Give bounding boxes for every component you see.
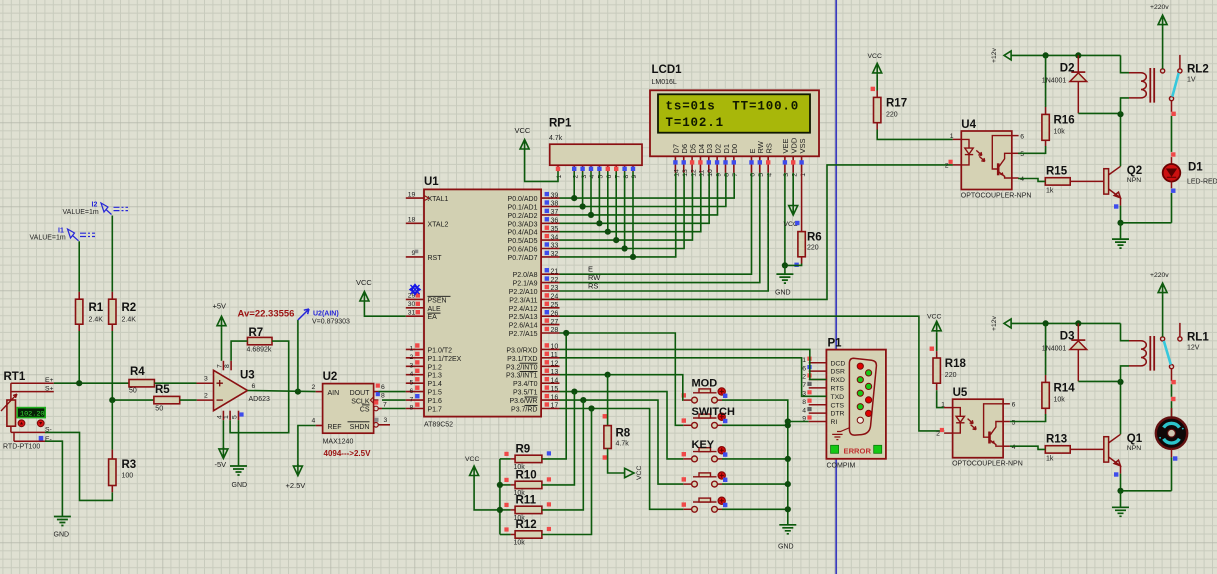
U3 pin 1 stub <box>229 411 231 421</box>
U1 pin 6 stub <box>406 391 424 393</box>
motor (fan) <box>1156 418 1187 449</box>
svg-text:6: 6 <box>252 383 256 390</box>
P1 pin 7 stub <box>809 387 827 389</box>
junction button common <box>785 506 791 512</box>
state square (D1 bottom) <box>1171 189 1175 193</box>
relay RL1 NC stub <box>1179 323 1181 337</box>
U1 pin 8 stub <box>406 408 424 410</box>
wire ground to motor <box>1121 490 1172 492</box>
svg-text:8: 8 <box>224 364 231 368</box>
KEY right stub <box>717 458 722 460</box>
svg-text:VALUE=1m: VALUE=1m <box>30 234 66 241</box>
wire R9-R12 common <box>499 459 501 535</box>
pin stub D1 bottom <box>1171 182 1173 189</box>
state square RT1 E- <box>39 436 44 441</box>
pin stub R1 bottom <box>78 324 80 331</box>
svg-text:SCLK: SCLK <box>351 398 370 405</box>
junction R11 vcc <box>497 507 503 513</box>
svg-text:R4: R4 <box>130 366 145 378</box>
svg-text:14: 14 <box>551 377 559 384</box>
wire P0.4 to LCD D4 <box>560 173 701 232</box>
wire R8 top <box>607 375 609 426</box>
pin stub R3 bottom <box>111 486 113 493</box>
U4 pin4 stub <box>1012 177 1019 179</box>
svg-text:8: 8 <box>802 399 806 406</box>
wire VCC to R18 <box>936 333 938 351</box>
svg-text:10: 10 <box>551 344 559 351</box>
ground (Q1) <box>1112 507 1129 516</box>
svg-text:R10: R10 <box>516 469 537 481</box>
wire button right <box>722 458 788 460</box>
svg-text:P2.1/A9: P2.1/A9 <box>513 281 538 288</box>
svg-text:2: 2 <box>802 374 806 381</box>
wire S node to R3 <box>111 400 113 450</box>
wire P3.7 to KEY3 <box>560 409 684 510</box>
wire probe pin <box>297 320 299 392</box>
push button KEY3 <box>692 498 718 512</box>
relay RL1 lever <box>1164 341 1171 365</box>
svg-text:35: 35 <box>551 226 559 233</box>
wire U3 pin8 to R7 <box>231 341 247 361</box>
push button SWITCH <box>692 414 718 428</box>
RT1 pin E+ <box>11 382 54 384</box>
wire rail to RL1 coil <box>1121 323 1130 340</box>
U1 pin 10 stub <box>541 348 559 350</box>
svg-text:U5: U5 <box>953 387 968 399</box>
svg-text:P2.4/A12: P2.4/A12 <box>509 306 538 313</box>
svg-text:2: 2 <box>204 393 208 400</box>
svg-text:1: 1 <box>223 415 230 419</box>
wire R1 bottom to E+ node <box>78 331 80 383</box>
P1 pin 6 stub <box>809 370 827 372</box>
pin stub R18 top <box>936 351 938 358</box>
svg-text:P3.2/INT0: P3.2/INT0 <box>506 364 538 371</box>
svg-text:+12v: +12v <box>991 315 998 331</box>
svg-text:P3.6/WR: P3.6/WR <box>509 398 537 405</box>
svg-text:CTS: CTS <box>831 402 845 409</box>
svg-text:5: 5 <box>1012 419 1016 426</box>
LCD pin E stub <box>751 156 753 173</box>
wire R13 to Q1 base <box>1070 448 1104 450</box>
junction R16 / rail <box>1043 52 1049 58</box>
U1 pin 30 stub <box>406 307 424 309</box>
svg-text:37: 37 <box>551 209 559 216</box>
SWITCH left stub <box>683 424 691 426</box>
wire rail to R16 <box>1045 55 1047 107</box>
pin stub R2 top <box>111 292 113 299</box>
svg-text:VALUE=1m: VALUE=1m <box>63 209 99 216</box>
wire rail to R14 <box>1045 323 1047 375</box>
node ground (Q2) <box>1117 220 1123 226</box>
svg-text:P0.5/AD5: P0.5/AD5 <box>508 238 538 245</box>
P1 connector pin circle <box>857 377 863 383</box>
svg-text:P1: P1 <box>828 338 843 350</box>
svg-text:P0.7/AD7: P0.7/AD7 <box>508 255 538 262</box>
RT1 pin S- <box>11 431 45 433</box>
voltage probe U2(AIN) <box>298 309 309 320</box>
svg-text:U4: U4 <box>961 119 976 131</box>
wire P2.3 to U4 pin2 <box>560 165 953 300</box>
state square Q2 emitter <box>1114 204 1118 208</box>
svg-text:VCC: VCC <box>636 466 643 480</box>
wire buttons common to ground <box>722 400 788 524</box>
U5 pin6 stub <box>1003 403 1010 405</box>
svg-text:P1.6: P1.6 <box>428 398 443 405</box>
svg-text:7: 7 <box>410 396 414 403</box>
state square (motor bottom) <box>1173 456 1177 460</box>
wire to motor <box>1171 384 1173 397</box>
P1 connector pin circle <box>866 410 872 416</box>
relay RL2 lever <box>1172 73 1178 97</box>
power VCC arrow EA <box>360 292 369 304</box>
pin stub opamp - <box>197 399 214 401</box>
D3 anode lead <box>1077 350 1079 382</box>
microcontroller U1 AT89C52 <box>424 189 541 416</box>
wire D2 anode to node <box>1078 112 1120 114</box>
resistor R5 50 <box>154 396 180 403</box>
svg-text:28: 28 <box>551 327 559 334</box>
resistor R12 10k <box>515 531 542 538</box>
U3 pin 4 stub <box>222 411 224 421</box>
svg-text:100: 100 <box>122 473 134 480</box>
U1 pin 14 stub <box>541 382 559 384</box>
svg-text:11: 11 <box>699 170 706 177</box>
svg-text:6: 6 <box>802 365 806 372</box>
U5 pin5 stub <box>1003 421 1010 423</box>
U1 pin 17 stub <box>541 408 559 410</box>
wire I2 to R2 <box>111 216 113 292</box>
resistor R11 10k <box>515 506 542 513</box>
svg-text:PSEN: PSEN <box>428 297 447 304</box>
Q2 emitter stub <box>1120 198 1122 206</box>
power +5V arrow <box>217 316 226 328</box>
KEY3 left stub <box>683 508 691 510</box>
svg-text:3: 3 <box>410 363 414 370</box>
svg-text:2: 2 <box>312 384 316 391</box>
svg-text:1: 1 <box>802 357 806 364</box>
svg-text:XTAL2: XTAL2 <box>428 221 449 228</box>
U2 pin REF stub <box>316 425 323 427</box>
svg-text:COMPIM: COMPIM <box>827 463 856 470</box>
power +2.5V arrow <box>293 464 302 476</box>
resistor R3 100 <box>109 459 116 486</box>
svg-text:+2.5V: +2.5V <box>286 481 306 490</box>
RP1 pin 4 stub <box>590 165 592 171</box>
svg-text:LED-RED: LED-RED <box>1187 179 1217 186</box>
wire RL2 to D1 a <box>1171 101 1173 112</box>
svg-text:7: 7 <box>732 173 739 177</box>
svg-text:4: 4 <box>1012 444 1016 451</box>
wire +220v to RL1 contact <box>1162 295 1164 337</box>
U1 pin 16 stub <box>541 399 559 401</box>
wire P0.0 to LCD D0 <box>560 173 735 198</box>
transistor Q2 NPN <box>1104 169 1109 194</box>
svg-text:NPN: NPN <box>1127 177 1141 184</box>
current probe I1 <box>68 229 96 241</box>
wire R15 to Q2 base <box>1070 180 1104 182</box>
U2 pin DOUT stub <box>374 391 379 393</box>
svg-text:5: 5 <box>1020 151 1024 158</box>
svg-text:R1: R1 <box>89 302 104 314</box>
svg-text:4: 4 <box>802 407 806 414</box>
U1 pin 39 stub <box>541 197 559 199</box>
svg-text:SHDN: SHDN <box>350 424 370 431</box>
svg-text:+220v: +220v <box>1150 4 1169 11</box>
wire VCC to RP1 pin1 <box>525 151 558 181</box>
pin stub R2 bottom <box>111 324 113 331</box>
junction D3 / rail <box>1075 320 1081 326</box>
svg-text:OPTOCOUPLER-NPN: OPTOCOUPLER-NPN <box>961 193 1032 200</box>
RT1 value display 102.20 <box>17 408 45 418</box>
svg-text:P1.0/T2: P1.0/T2 <box>428 347 453 354</box>
origin marker <box>410 284 420 294</box>
U1 pin 37 stub <box>541 214 559 216</box>
relay RL1 contacts <box>1161 337 1165 341</box>
svg-text:LCD1: LCD1 <box>652 64 683 76</box>
svg-text:7: 7 <box>217 364 224 368</box>
svg-text:4.7k: 4.7k <box>616 441 630 448</box>
svg-text:NPN: NPN <box>1127 445 1141 452</box>
wire RP1 pin 4 to P0.2 <box>590 172 592 215</box>
svg-text:6: 6 <box>410 388 414 395</box>
wire SCLK to P1.6 <box>382 399 406 401</box>
svg-text:TXD: TXD <box>831 394 845 401</box>
svg-text:31: 31 <box>408 309 416 316</box>
wire VSS to R6 <box>801 173 803 232</box>
wire P0.7 to LCD D7 <box>560 173 676 257</box>
svg-text:U1: U1 <box>424 176 439 188</box>
wire R9 left <box>500 458 511 460</box>
wire P3.6 to KEY2 <box>560 400 684 484</box>
wire U4 pin4 to R15 <box>1018 179 1045 182</box>
wire R16 to U4 pin5 <box>1018 146 1046 153</box>
svg-text:16: 16 <box>551 394 559 401</box>
svg-text:RL2: RL2 <box>1187 63 1209 75</box>
svg-text:P2.0/A8: P2.0/A8 <box>513 272 538 279</box>
U1 pin 25 stub <box>541 307 559 309</box>
RT1 pin E- <box>14 440 45 442</box>
svg-text:VCC: VCC <box>356 278 372 287</box>
wire R8 to VCC <box>608 449 625 474</box>
wire S- to R3 bottom <box>45 432 112 500</box>
wire Q2 emitter to ground <box>1120 206 1122 223</box>
U4 pin6 stub <box>1012 135 1019 137</box>
LCD pin D6 stub <box>683 156 685 173</box>
svg-text:4: 4 <box>410 371 414 378</box>
P1 pin 4 stub <box>809 412 827 414</box>
svg-text:P1.3: P1.3 <box>428 373 443 380</box>
state square Q1 emitter <box>1114 472 1118 476</box>
junction button common <box>785 422 791 428</box>
KEY3 right stub <box>717 508 722 510</box>
LCD pin VSS stub <box>801 156 803 173</box>
svg-text:MAX1240: MAX1240 <box>323 439 354 446</box>
U1 pin 28 stub <box>541 332 559 334</box>
P1 pin 3 stub <box>809 395 827 397</box>
wire U3 pin4 to -5V <box>222 420 224 449</box>
wire RP1 pin 7 to P0.5 <box>615 172 617 241</box>
wire R2 bottom to S node <box>111 331 113 400</box>
svg-text:2.4K: 2.4K <box>122 317 137 324</box>
svg-text:R13: R13 <box>1046 434 1067 446</box>
power +220v arrow top <box>1158 15 1167 27</box>
svg-text:D0: D0 <box>730 144 739 154</box>
svg-text:REF: REF <box>328 424 342 431</box>
svg-text:CS: CS <box>360 407 370 414</box>
resistor R9 10k <box>515 455 542 462</box>
node E+ / R1 <box>76 380 82 386</box>
svg-text:10k: 10k <box>1054 128 1066 135</box>
resistor R17 220 <box>874 97 881 122</box>
svg-text:Q1: Q1 <box>1127 433 1143 445</box>
svg-text:DOUT: DOUT <box>350 390 371 397</box>
svg-text:4.7k: 4.7k <box>549 135 563 142</box>
state square R6 bottom <box>794 263 798 267</box>
state square (D1 top) <box>1171 152 1175 156</box>
wire S node to R5 <box>112 399 154 401</box>
wire R14 to U5 pin5 <box>1010 414 1046 422</box>
svg-text:D1: D1 <box>1188 162 1203 174</box>
U1 pin 34 stub <box>541 239 559 241</box>
svg-text:P1.4: P1.4 <box>428 381 443 388</box>
pin stub R3 top <box>111 450 113 459</box>
LCD pin D1 stub <box>725 156 727 173</box>
push button MOD <box>692 389 718 403</box>
D2 cathode lead <box>1077 55 1079 72</box>
svg-text:50: 50 <box>129 388 137 395</box>
svg-text:R18: R18 <box>945 358 967 370</box>
svg-text:RL1: RL1 <box>1187 331 1209 343</box>
relay RL1 12V <box>1129 341 1146 366</box>
svg-text:23: 23 <box>551 285 559 292</box>
junction R12 / P3.7 <box>588 405 594 411</box>
svg-text:4.6892k: 4.6892k <box>247 347 272 354</box>
svg-text:220: 220 <box>886 111 898 118</box>
wire +5V to U3 pin7 <box>221 328 223 361</box>
U1 pin 21 stub <box>541 273 559 275</box>
ground (Q2) <box>1112 239 1129 248</box>
wire RP1 pin 3 to P0.1 <box>582 172 584 207</box>
svg-text:R12: R12 <box>516 519 537 531</box>
wire P2.7 to SWITCH <box>560 333 684 425</box>
wire button right <box>722 483 788 485</box>
R9 left stub <box>511 458 515 460</box>
U4 pin5 stub <box>1012 152 1019 154</box>
current probe I2 <box>101 203 128 215</box>
junction R9 / P2.7 <box>563 330 569 336</box>
svg-text:11: 11 <box>551 352 558 359</box>
resistor R1 2.4K <box>76 299 83 324</box>
svg-text:38: 38 <box>551 201 559 208</box>
LCD pin D5 stub <box>691 156 693 173</box>
MOD right stub <box>717 399 722 401</box>
LCD screen <box>658 94 810 132</box>
junction RP1 pin4 / P0.2 <box>588 212 594 218</box>
wire R7 to U3 pin1 <box>230 341 289 433</box>
svg-text:1N4001: 1N4001 <box>1042 77 1067 84</box>
svg-text:P2.2/A10: P2.2/A10 <box>509 289 538 296</box>
P1 pin 1 stub <box>809 362 827 364</box>
state square U3 pin5 <box>239 412 243 416</box>
svg-text:P2.6/A14: P2.6/A14 <box>509 323 538 330</box>
junction RP1 pin9 / P0.7 <box>630 254 636 260</box>
pin stub R1 top <box>78 292 80 299</box>
junction R8 / P3.3 <box>605 372 611 378</box>
resistor R7 4.6892k <box>247 337 272 344</box>
ground (U3 ref) <box>230 466 247 475</box>
KEY2 left stub <box>683 483 691 485</box>
LCD pin D4 stub <box>699 156 701 173</box>
wire P2 to LCD RW <box>560 173 760 283</box>
svg-text:DCD: DCD <box>831 360 846 367</box>
resistor R6 220 <box>798 232 805 257</box>
svg-text:7: 7 <box>383 401 387 408</box>
resistor R2 2.4K <box>109 299 116 324</box>
ground (LCD) <box>776 274 793 283</box>
U3 pin 7 stub <box>222 361 224 371</box>
wire P2.5 to U5 pin2 <box>560 316 945 431</box>
resistor R8 4.7k <box>603 414 607 418</box>
wire R12 left <box>500 534 511 536</box>
svg-text:5: 5 <box>232 415 239 419</box>
P1 connector pin circle <box>857 390 863 396</box>
RT1 pin S+ <box>11 391 54 393</box>
svg-text:SWITCH: SWITCH <box>692 406 735 418</box>
svg-text:DTR: DTR <box>831 411 845 418</box>
wire CS to P1.7 <box>382 408 406 410</box>
U4 pin1 stub <box>953 138 962 140</box>
svg-text:10k: 10k <box>1054 396 1066 403</box>
svg-text:P2.5/A13: P2.5/A13 <box>509 314 538 321</box>
wire I1 to R1 <box>78 241 80 291</box>
wire P0.5 to LCD D5 <box>560 173 693 240</box>
U1 pin 1 stub <box>406 348 424 350</box>
svg-text:220: 220 <box>945 372 957 379</box>
svg-text:P0.1/AD1: P0.1/AD1 <box>508 205 538 212</box>
svg-text:P0.4/AD4: P0.4/AD4 <box>508 230 538 237</box>
svg-text:R5: R5 <box>155 384 170 396</box>
svg-text:6: 6 <box>1020 133 1024 140</box>
svg-text:1k: 1k <box>1046 188 1054 195</box>
svg-text:P3.7/RD: P3.7/RD <box>511 407 537 414</box>
svg-text:GND: GND <box>232 482 248 489</box>
R12 left stub <box>511 534 515 536</box>
svg-text:27: 27 <box>551 319 559 326</box>
wire R6 bottom to ground <box>785 264 802 266</box>
U1 pin 24 stub <box>541 298 559 300</box>
Q1 emitter stub <box>1120 466 1122 474</box>
power VCC arrow keys <box>470 466 479 478</box>
svg-text:22: 22 <box>551 277 559 284</box>
wire R17 to U4 pin1 <box>877 130 952 140</box>
optocoupler U5 OPTOCOUPLER-NPN <box>953 399 1004 458</box>
RP1 pin 8 stub <box>624 165 626 171</box>
wire P0.1 to LCD D1 <box>560 173 726 207</box>
svg-text:P1.2: P1.2 <box>428 364 443 371</box>
state square (RL1 pole) <box>1171 380 1175 384</box>
wire +12v rail (top) <box>1011 54 1120 56</box>
svg-text:P1.1/T2EX: P1.1/T2EX <box>428 356 462 363</box>
wire U5 pin4 to R13 <box>1010 446 1045 449</box>
wire RP1 pin 8 to P0.6 <box>624 172 626 249</box>
optocoupler U4 OPTOCOUPLER-NPN <box>961 131 1012 190</box>
U3 pin 5 stub <box>238 411 240 421</box>
power VCC down arrow (VDD) <box>789 204 798 216</box>
svg-text:21: 21 <box>551 268 559 275</box>
wire +220v to RL2 contact <box>1162 27 1164 69</box>
svg-text:24: 24 <box>551 294 559 301</box>
svg-text:EA: EA <box>428 314 438 321</box>
